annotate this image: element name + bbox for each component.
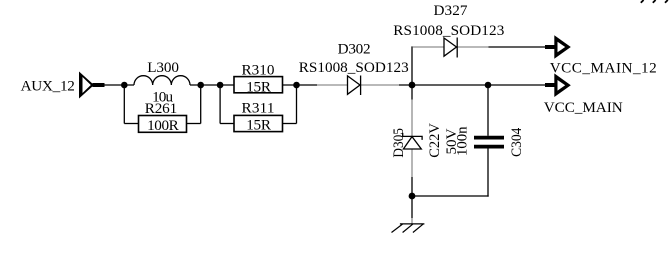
svg-text:R310: R310 xyxy=(242,62,275,79)
svg-text:15R: 15R xyxy=(246,117,272,134)
svg-text:D302: D302 xyxy=(338,41,371,58)
svg-text:RS1008_SOD123: RS1008_SOD123 xyxy=(299,59,409,76)
svg-text:R261: R261 xyxy=(145,100,177,117)
svg-text:D327: D327 xyxy=(434,2,468,19)
svg-text:VCC_MAIN_12: VCC_MAIN_12 xyxy=(550,60,657,77)
svg-text:R311: R311 xyxy=(242,100,275,117)
svg-text:VCC_MAIN: VCC_MAIN xyxy=(544,99,623,116)
svg-text:AUX_12: AUX_12 xyxy=(21,77,75,94)
svg-text:L300: L300 xyxy=(147,59,179,76)
svg-text:100n: 100n xyxy=(453,126,470,156)
svg-text:15R: 15R xyxy=(246,78,272,95)
svg-text:100R: 100R xyxy=(147,117,180,134)
svg-text:C22V: C22V xyxy=(426,123,443,158)
svg-text:C304: C304 xyxy=(508,127,525,157)
svg-text:RS1008_SOD123: RS1008_SOD123 xyxy=(393,22,504,39)
svg-text:D305: D305 xyxy=(390,128,407,158)
